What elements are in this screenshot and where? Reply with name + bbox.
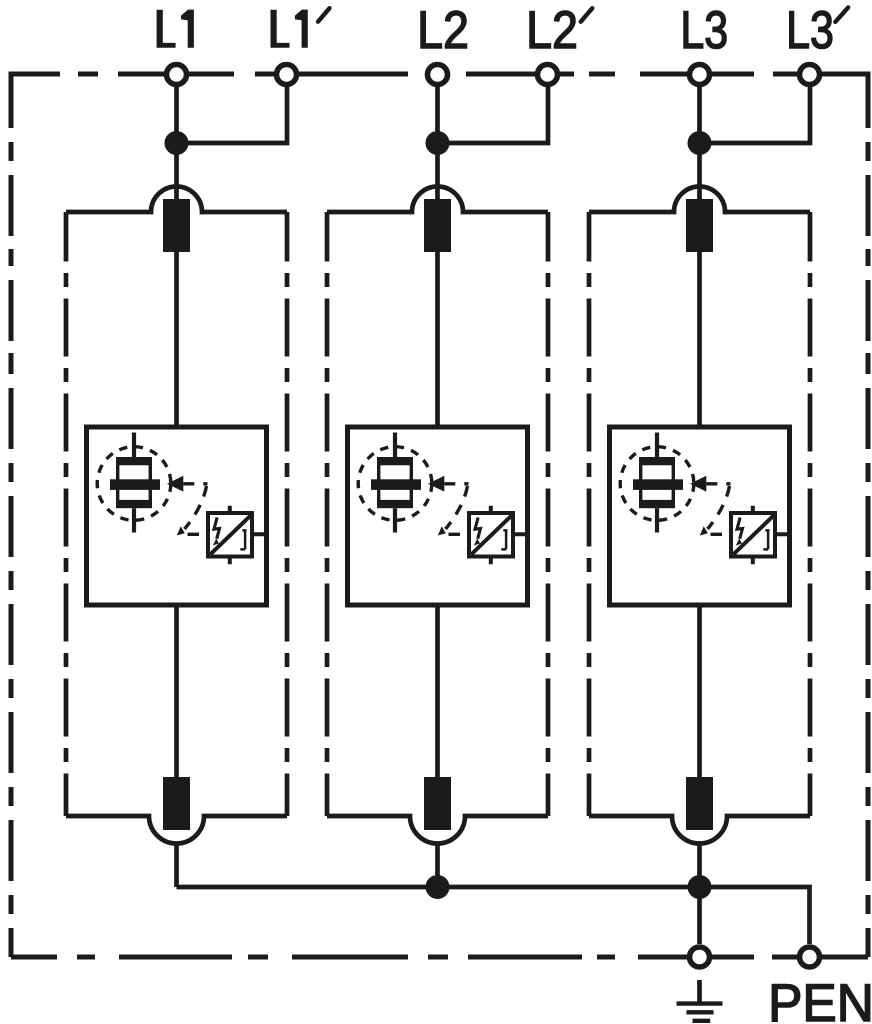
svg-text:PEN: PEN — [768, 974, 872, 1024]
svg-text:L3: L3 — [680, 1, 728, 60]
svg-text:L2: L2 — [417, 0, 469, 59]
svg-text:L2: L2 — [526, 0, 578, 59]
svg-text:L3: L3 — [786, 1, 834, 60]
